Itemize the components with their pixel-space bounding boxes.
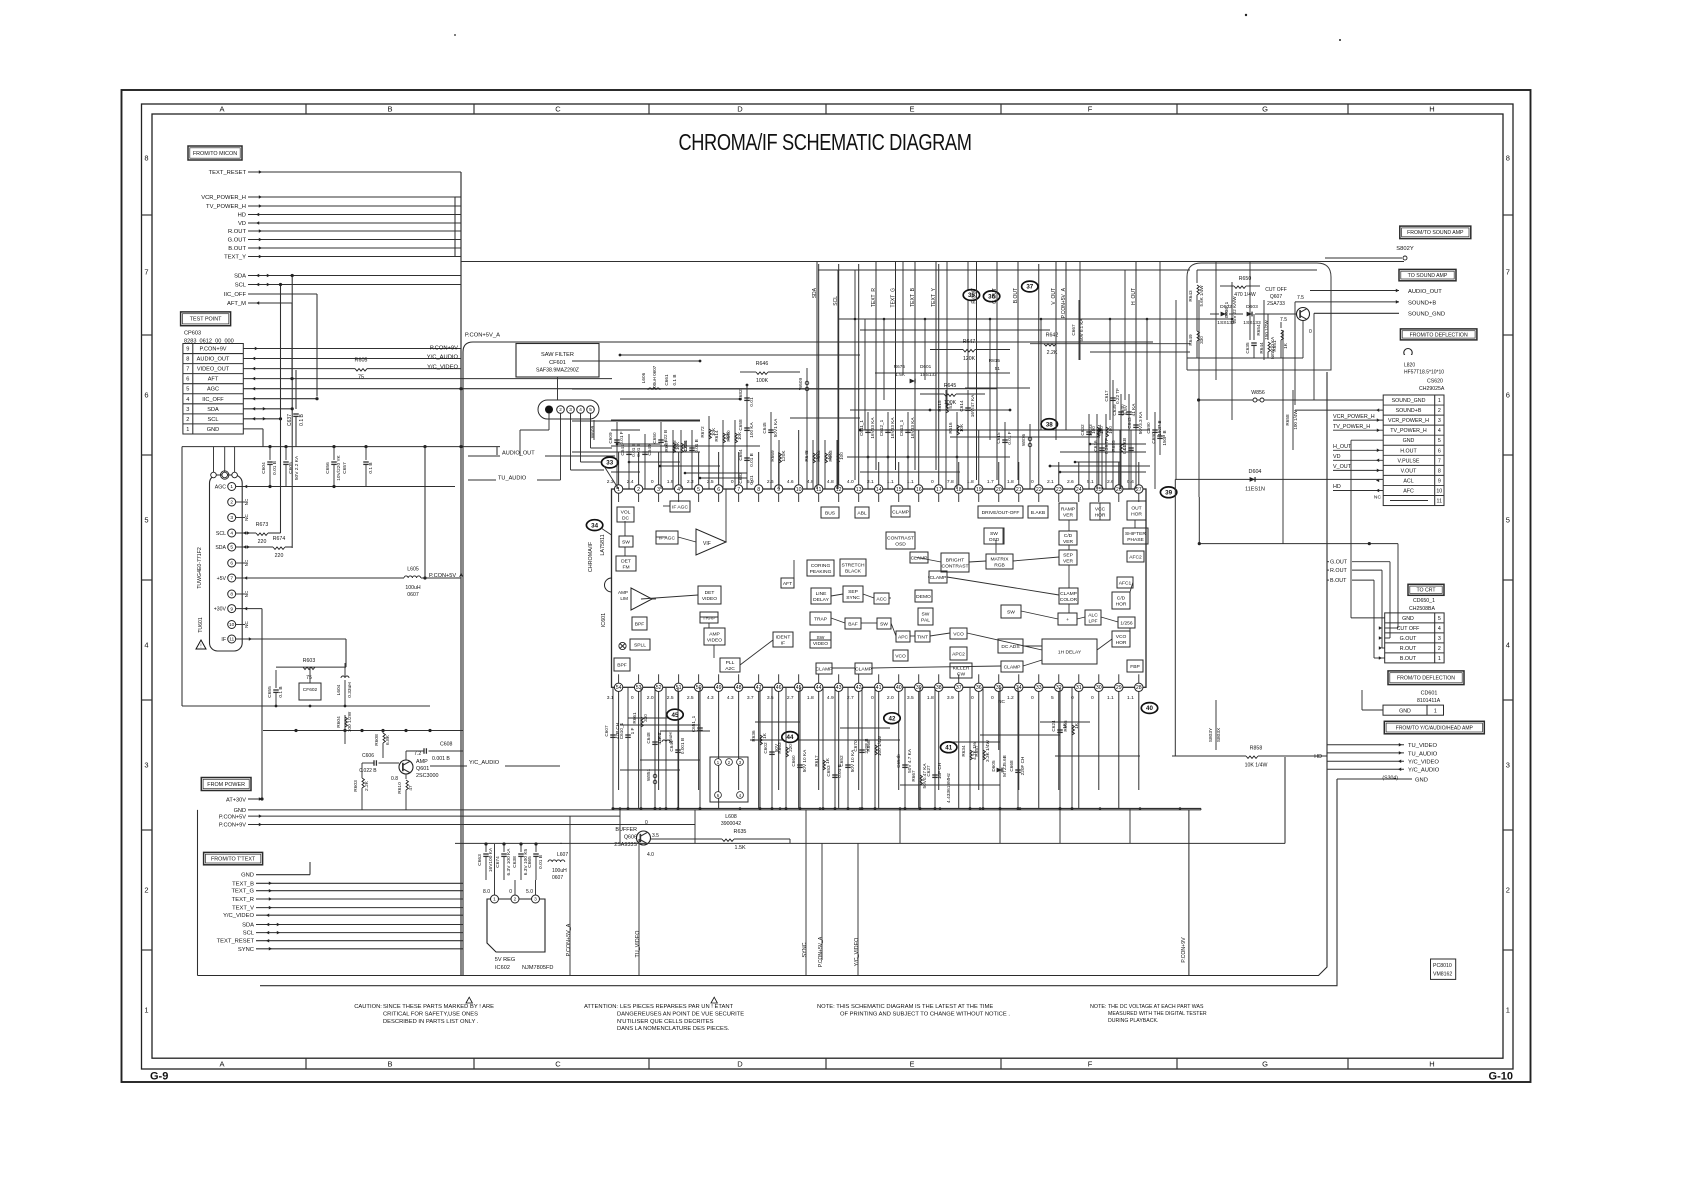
svg-text:0.01 B: 0.01 B (636, 443, 641, 457)
svg-text:2: 2 (559, 407, 562, 412)
svg-text:!: ! (200, 644, 201, 650)
svg-text:1K: 1K (1074, 722, 1079, 729)
svg-text:R615: R615 (937, 400, 942, 412)
component R616 (956, 412, 958, 489)
svg-text:IDENT: IDENT (776, 635, 791, 641)
svg-text:S803X: S803X (1216, 727, 1222, 742)
component C617 (1112, 380, 1114, 489)
svg-text:49: 49 (716, 685, 722, 691)
jumper W856 (1199, 399, 1384, 401)
svg-text:Y/C_AUDIO: Y/C_AUDIO (469, 760, 500, 766)
svg-text:CF601: CF601 (549, 360, 566, 366)
svg-text:OF PRINTING AND SUBJECT TO CHA: OF PRINTING AND SUBJECT TO CHANGE WITHOU… (840, 1011, 1010, 1017)
svg-text:14: 14 (876, 487, 882, 493)
wire tuner lower gnd (181, 665, 183, 706)
svg-text:R661: R661 (632, 712, 637, 724)
wire ic internal (1097, 639, 1112, 650)
svg-text:0.1 B: 0.1 B (299, 414, 305, 426)
svg-text:470 1/4W: 470 1/4W (1234, 292, 1256, 298)
node G.OUT drop (996, 262, 998, 480)
ic function block BUS (821, 507, 839, 518)
svg-text:R655: R655 (1111, 440, 1116, 452)
ic function block OUT HOR (1127, 501, 1146, 520)
component C644 (677, 687, 679, 808)
svg-text:+: + (1066, 618, 1069, 623)
svg-text:4: 4 (1438, 626, 1441, 632)
svg-text:GND: GND (1403, 438, 1415, 444)
svg-text:100 1/2W: 100 1/2W (347, 711, 353, 732)
component R634 (969, 687, 971, 808)
svg-text:HD: HD (238, 213, 246, 219)
svg-text:100 1/4W: 100 1/4W (877, 735, 882, 756)
svg-text:H.OUT: H.OUT (1400, 448, 1417, 454)
svg-text:0: 0 (971, 695, 974, 701)
svg-text:4.3: 4.3 (727, 695, 734, 701)
svg-text:AUDIO_OUT: AUDIO_OUT (197, 357, 230, 363)
svg-text:220: 220 (788, 744, 793, 752)
component C648 (654, 687, 656, 808)
svg-text:NC: NC (244, 514, 249, 521)
svg-text:C665: C665 (527, 856, 533, 868)
svg-text:2.6: 2.6 (1067, 479, 1074, 485)
svg-text:3: 3 (144, 761, 148, 770)
svg-text:16V33 KA: 16V33 KA (890, 417, 895, 439)
svg-text:2: 2 (1438, 646, 1441, 652)
wire ic internal (889, 597, 891, 599)
svg-text:SHIFTER: SHIFTER (1125, 531, 1146, 537)
svg-text:F: F (1088, 105, 1093, 114)
svg-text:SYNC: SYNC (238, 947, 254, 953)
svg-text:AFC1: AFC1 (1119, 581, 1132, 587)
svg-text:IF: IF (221, 637, 226, 643)
svg-text:HD: HD (1314, 754, 1322, 760)
svg-text:P.CON+5V_A: P.CON+5V_A (429, 573, 463, 579)
capacitor C637 (295, 370, 297, 409)
component C616 (1101, 430, 1103, 489)
wire AGC row (243, 388, 997, 390)
svg-text:SCL: SCL (216, 531, 226, 537)
svg-text:IC602: IC602 (495, 965, 510, 971)
svg-text:29: 29 (1116, 685, 1122, 691)
node TEXT_R drop (875, 262, 877, 470)
svg-text:GND: GND (1415, 778, 1428, 784)
svg-text:0.015 B: 0.015 B (1122, 438, 1127, 454)
component R667 (919, 687, 921, 808)
svg-text:R633: R633 (1088, 424, 1093, 436)
svg-text:VOL: VOL (621, 510, 631, 516)
tuner pin 2 (228, 498, 236, 506)
svg-text:1: 1 (186, 427, 189, 433)
wire ic internal (740, 640, 773, 665)
balloon 37 (1022, 281, 1038, 292)
wire ic internal (831, 618, 845, 623)
ic function block TINT (915, 631, 930, 642)
wire testpoint rows (243, 348, 461, 350)
svg-text:R.OUT: R.OUT (1400, 646, 1417, 652)
label FROM/TO DEFLECTION (1400, 329, 1477, 340)
svg-text:16V33 KA: 16V33 KA (910, 417, 915, 439)
svg-text:1.8: 1.8 (927, 695, 934, 701)
label TO SOUND AMP (1399, 269, 1456, 280)
svg-text:ACC: ACC (876, 597, 887, 603)
svg-text:AFC: AFC (1403, 488, 1414, 494)
wire (424, 447, 426, 578)
svg-text:1SS133: 1SS133 (1217, 320, 1235, 326)
svg-text:CH29025A: CH29025A (1419, 386, 1445, 392)
svg-text:VCR_POWER_H: VCR_POWER_H (201, 195, 246, 201)
resonator X601 (710, 757, 748, 802)
svg-text:1.8: 1.8 (1007, 479, 1014, 485)
svg-text:FROM/TO MICON: FROM/TO MICON (193, 151, 237, 157)
svg-text:R665: R665 (1063, 720, 1068, 732)
transistor Q601 (399, 760, 413, 774)
svg-text:TU_VIDEO: TU_VIDEO (1408, 743, 1437, 749)
svg-text:3.9: 3.9 (947, 695, 954, 701)
svg-text:NOTE: THIS SCHEMATIC DIAGRAM I: NOTE: THIS SCHEMATIC DIAGRAM IS THE LATE… (817, 1004, 993, 1010)
sound subcircuit outline (1187, 263, 1331, 370)
svg-text:10K: 10K (737, 431, 742, 440)
svg-text:ABL: ABL (857, 511, 867, 517)
wire IIC_OFF vertical (316, 294, 318, 397)
svg-text:5: 5 (589, 407, 592, 412)
svg-text:10V/220 YK: 10V/220 YK (336, 454, 342, 480)
svg-text:SCL: SCL (243, 931, 255, 937)
svg-text:SOUND+B: SOUND+B (1408, 300, 1436, 306)
svg-text:6: 6 (186, 377, 189, 383)
balloon 34 (586, 520, 602, 531)
svg-text:0.22 TF: 0.22 TF (1115, 388, 1120, 404)
svg-text:TV_POWER_H: TV_POWER_H (206, 204, 246, 210)
ic function block VCO (950, 628, 967, 639)
svg-text:OSD: OSD (989, 537, 1000, 543)
ic function block DC ADS (998, 639, 1023, 653)
buffer Q606 (637, 831, 651, 845)
component R669 (778, 440, 780, 489)
svg-text:AMP: AMP (618, 590, 628, 595)
svg-text:3.5: 3.5 (652, 833, 659, 839)
svg-text:C654b: C654b (896, 754, 901, 768)
ic function block B.AKB (1028, 506, 1048, 518)
svg-text:V.PULSE: V.PULSE (1398, 458, 1420, 464)
svg-text:DET: DET (705, 590, 715, 596)
svg-text:4.6: 4.6 (787, 479, 794, 485)
svg-text:75: 75 (306, 675, 312, 681)
tuner pin 9 (228, 605, 236, 613)
svg-text:IF AGC: IF AGC (672, 505, 689, 511)
node SOUND_GND (1314, 312, 1399, 314)
svg-text:10: 10 (796, 487, 802, 493)
svg-text:SW: SW (880, 622, 888, 628)
svg-text:VIDEO: VIDEO (707, 638, 722, 644)
svg-text:33: 33 (606, 460, 613, 467)
svg-text:47: 47 (756, 685, 762, 691)
svg-text:BAF: BAF (848, 622, 858, 628)
svg-text:2SC3000: 2SC3000 (416, 773, 438, 779)
svg-text:CHROMA/IF: CHROMA/IF (588, 541, 594, 572)
svg-text:C690: C690 (1151, 432, 1156, 444)
svg-text:0: 0 (1031, 479, 1034, 485)
wire right top risers (1159, 262, 1161, 420)
svg-text:DEMO: DEMO (916, 594, 931, 600)
svg-text:4.3: 4.3 (707, 695, 714, 701)
svg-text:SDA: SDA (812, 287, 818, 298)
label FROM/TO DEFLECTION 2 (1388, 671, 1464, 685)
svg-text:R603: R603 (353, 780, 359, 792)
wire bottom pin stubs (618, 692, 620, 791)
svg-text:1.1: 1.1 (1127, 695, 1134, 701)
wire ic internal (1021, 611, 1058, 619)
regulator pins (491, 895, 499, 903)
ic function block STRETCH BLACK (840, 559, 866, 576)
component R615 (945, 390, 947, 489)
ic function block + (1058, 613, 1077, 625)
svg-text:TEXT_G: TEXT_G (891, 288, 897, 308)
svg-text:1.8: 1.8 (807, 695, 814, 701)
label TEST POINT (181, 312, 231, 326)
svg-text:1: 1 (1434, 709, 1437, 715)
svg-text:1.7: 1.7 (987, 479, 994, 485)
svg-text:C649: C649 (647, 444, 652, 456)
svg-text:8101411A: 8101411A (1417, 698, 1441, 704)
svg-text:2: 2 (144, 886, 148, 895)
svg-text:7.8: 7.8 (947, 479, 954, 485)
ic function block AFC1 (1117, 577, 1133, 588)
capacitor C690b (1159, 420, 1161, 455)
svg-text:VIDEO: VIDEO (813, 641, 828, 647)
resistor R605 (243, 368, 355, 370)
wire reg top bus (455, 842, 562, 844)
node P.CON+5V_A drop (1065, 262, 1067, 430)
wire trunk lower (560, 842, 1285, 844)
balloon 35 (963, 290, 979, 301)
svg-text:R635: R635 (734, 829, 747, 835)
svg-text:35: 35 (996, 685, 1002, 691)
ic function block DET FM (616, 556, 636, 571)
svg-text:DRIVE/OUT-OFF: DRIVE/OUT-OFF (982, 510, 1020, 516)
wire SCL vertical (280, 285, 282, 534)
svg-text:21: 21 (1016, 487, 1022, 493)
balloon 36 (983, 291, 999, 302)
svg-text:G.OUT: G.OUT (992, 288, 998, 304)
svg-text:7: 7 (230, 576, 233, 582)
svg-text:C614: C614 (959, 400, 964, 412)
tuner pin 1 (228, 483, 236, 491)
svg-text:SINCE THESE PARTS MARKED BY !: SINCE THESE PARTS MARKED BY ! ARE (383, 1004, 494, 1010)
wire ic internal (995, 540, 997, 553)
svg-text:C616: C616 (1093, 440, 1098, 452)
tuner pin 6 (228, 559, 236, 567)
svg-text:A: A (219, 1060, 224, 1069)
ic function block SHIFTER PHASE (1123, 528, 1148, 544)
svg-text:G: G (1262, 1060, 1268, 1069)
svg-text:G: G (1262, 105, 1268, 114)
svg-text:16V100 KA: 16V100 KA (488, 847, 494, 872)
capacitor C682 chain (746, 385, 748, 489)
svg-text:B: B (387, 1060, 392, 1069)
svg-text:2.0: 2.0 (887, 695, 894, 701)
svg-text:P.CON+5V_A: P.CON+5V_A (566, 923, 572, 956)
inductor L607 (548, 860, 565, 862)
component R614 (722, 420, 724, 489)
svg-text:FBP: FBP (1130, 664, 1140, 670)
svg-text:17: 17 (936, 487, 942, 493)
svg-text:Y/C_AUDIO: Y/C_AUDIO (427, 355, 459, 361)
node Y/C_AUDIO right (1327, 768, 1404, 770)
svg-text:TEXT_RESET: TEXT_RESET (217, 939, 255, 945)
svg-text:6: 6 (1506, 391, 1510, 400)
svg-text:50V1 KA: 50V1 KA (773, 418, 778, 437)
svg-text:3.3K 1/4W: 3.3K 1/4W (985, 739, 990, 761)
ic function block SPLL (630, 639, 650, 650)
svg-text:11: 11 (229, 637, 234, 643)
svg-text:7.2: 7.2 (414, 751, 421, 757)
resistor R608 (383, 733, 385, 743)
ic function block SEP SYNC (843, 586, 863, 602)
svg-text:THE DC VOLTAGE AT EACH PART WA: THE DC VOLTAGE AT EACH PART WAS (1108, 1004, 1204, 1010)
svg-text:B.AKB: B.AKB (1031, 510, 1045, 516)
svg-text:IF AGC: IF AGC (659, 536, 676, 542)
ic function block BPF (614, 658, 630, 671)
svg-text:H_OUT: H_OUT (1131, 288, 1137, 305)
svg-text:10: 10 (1436, 488, 1442, 494)
ic function block DRIVE/OUT-OFF (978, 506, 1023, 518)
balloon 44 (782, 732, 798, 743)
svg-text:V_OUT: V_OUT (1333, 464, 1352, 470)
svg-text:SDA: SDA (234, 274, 246, 280)
svg-text:C605: C605 (288, 462, 294, 474)
tuner pin 3 (228, 514, 236, 522)
svg-text:50V 2.2 KA: 50V 2.2 KA (294, 455, 300, 480)
wire verticals bottom area (569, 816, 571, 975)
svg-text:44: 44 (787, 734, 794, 741)
svg-text:41 KA: 41 KA (1131, 403, 1136, 417)
svg-text:SW: SW (922, 612, 930, 618)
svg-text:G.OUT: G.OUT (1400, 636, 1418, 642)
svg-text:AT+30V: AT+30V (226, 798, 246, 804)
ic function block CLAMP (816, 663, 832, 674)
svg-text:R.OUT: R.OUT (972, 288, 978, 304)
ic function block CLAMP COLOR (1059, 588, 1078, 604)
wire ic internal (915, 557, 941, 562)
svg-text:46: 46 (776, 685, 782, 691)
ic function block ACC (874, 593, 889, 604)
ic function block VCC HOR (1090, 503, 1110, 520)
svg-text:TEXT_V: TEXT_V (232, 906, 254, 912)
svg-text:1.2: 1.2 (1007, 695, 1014, 701)
svg-text:1/256: 1/256 (1120, 621, 1133, 627)
svg-text:0.8: 0.8 (391, 776, 398, 782)
svg-text:0: 0 (645, 820, 648, 826)
svg-text:HOR: HOR (1116, 602, 1127, 608)
wire ic internal (793, 560, 795, 583)
node TU_VIDEO right (1327, 744, 1404, 746)
svg-text:6: 6 (144, 391, 148, 400)
resistor R603b (362, 778, 364, 788)
wire ic internal (891, 623, 896, 636)
svg-text:C606: C606 (362, 753, 374, 759)
ic gnd bus (612, 808, 1202, 810)
wire +30V pin9 (236, 608, 262, 610)
svg-text:1: 1 (230, 484, 233, 490)
svg-text:R667: R667 (911, 770, 916, 782)
svg-text:6.8K: 6.8K (385, 734, 391, 745)
ic function block SW (619, 536, 633, 547)
wire ic internal (678, 537, 696, 542)
svg-text:R617: R617 (814, 755, 819, 767)
svg-text:C663: C663 (477, 854, 483, 866)
component C640 (1128, 394, 1130, 489)
balloon 38 (1041, 419, 1057, 430)
wire ic internal (928, 576, 929, 578)
svg-text:2: 2 (637, 487, 640, 493)
wire ic internal (1101, 617, 1118, 622)
ic function block CLAMP (1001, 661, 1023, 672)
ic function block SW VIDEO (810, 632, 831, 648)
svg-text:220: 220 (258, 539, 267, 545)
svg-text:D604: D604 (1249, 469, 1262, 475)
wire trunk5 (572, 388, 860, 390)
svg-text:HF57T18.5*10*10: HF57T18.5*10*10 (1404, 370, 1444, 376)
ic function block VCO (893, 650, 908, 661)
svg-text:3: 3 (534, 897, 537, 903)
wire ic internal (1068, 545, 1070, 550)
svg-text:C648: C648 (646, 732, 651, 744)
svg-text:4.9: 4.9 (827, 695, 834, 701)
svg-text:GND: GND (207, 427, 219, 433)
svg-text:C632: C632 (1080, 424, 1085, 436)
wire ic internal (810, 639, 831, 641)
svg-text:R663: R663 (828, 450, 833, 462)
svg-text:D: D (737, 1060, 743, 1069)
svg-text:C624: C624 (1051, 720, 1056, 732)
svg-text:R676: R676 (894, 364, 906, 369)
svg-text:0: 0 (1091, 695, 1094, 701)
svg-text:C643: C643 (1127, 417, 1132, 429)
ic function block IDENT IF (773, 632, 793, 647)
svg-text:C654: C654 (738, 449, 743, 461)
inductor L605 (404, 576, 421, 578)
svg-text:2: 2 (514, 897, 517, 903)
ic function block DEMO (915, 590, 932, 602)
svg-text:BPF: BPF (617, 663, 627, 669)
wire ic internal (641, 595, 698, 599)
svg-text:16P CH: 16P CH (937, 763, 942, 779)
svg-text:Y/C_AUDIO: Y/C_AUDIO (1408, 768, 1440, 774)
svg-text:DANGEREUSES AN POINT DE VUE SE: DANGEREUSES AN POINT DE VUE SECURITE (617, 1011, 744, 1017)
svg-text:MEASURED WITH THE DIGITAL TEST: MEASURED WITH THE DIGITAL TESTER (1108, 1011, 1207, 1017)
svg-text:C/D: C/D (1064, 533, 1073, 539)
svg-text:45: 45 (796, 685, 802, 691)
svg-text:22: 22 (1036, 487, 1042, 493)
svg-text:S803Y: S803Y (1208, 727, 1214, 742)
svg-text:5: 5 (1506, 516, 1510, 525)
svg-text:MTZJ5.6B: MTZJ5.6B (1002, 755, 1007, 777)
svg-text:0607: 0607 (552, 875, 563, 881)
svg-text:1K: 1K (825, 757, 830, 764)
wire trunk7 (572, 420, 700, 422)
svg-text:L607: L607 (557, 852, 568, 858)
tuner pin 11 (228, 635, 236, 643)
svg-text:TO SOUND AMP: TO SOUND AMP (1408, 273, 1448, 279)
node SDA drop (816, 262, 818, 489)
ic function block KILLER CW (950, 663, 972, 678)
capacitor C655 (275, 670, 277, 688)
capacitor C604 (269, 447, 271, 460)
wire ic internal (1077, 617, 1085, 619)
wire gnd bus dots (619, 807, 622, 810)
svg-text:SOUND_GND: SOUND_GND (1408, 312, 1445, 318)
svg-text:LINE: LINE (816, 591, 828, 597)
